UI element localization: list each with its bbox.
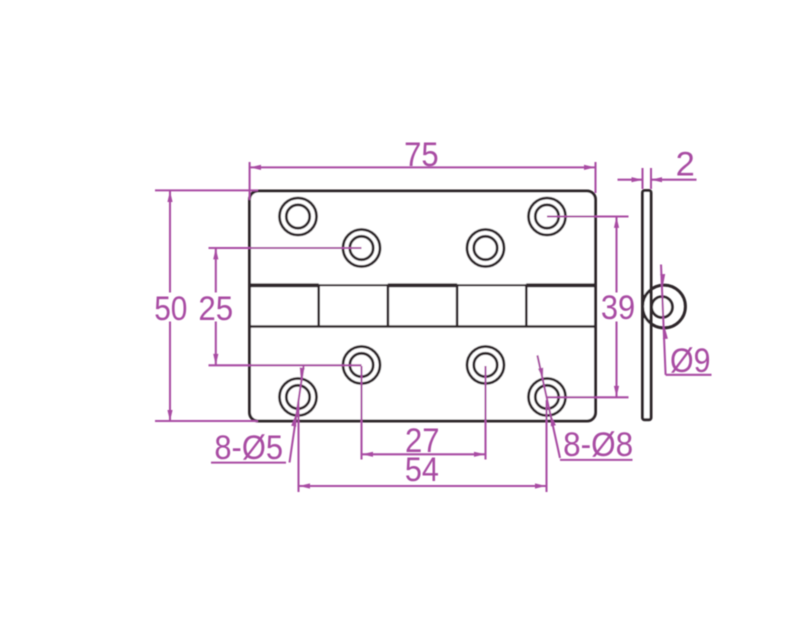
svg-text:25: 25 bbox=[198, 290, 233, 328]
svg-text:8-Ø8: 8-Ø8 bbox=[563, 426, 633, 464]
svg-text:2: 2 bbox=[676, 146, 695, 184]
svg-text:75: 75 bbox=[404, 136, 439, 174]
svg-text:8-Ø5: 8-Ø5 bbox=[214, 429, 283, 467]
svg-text:54: 54 bbox=[405, 451, 439, 489]
svg-text:39: 39 bbox=[601, 289, 635, 327]
svg-text:50: 50 bbox=[154, 290, 187, 328]
